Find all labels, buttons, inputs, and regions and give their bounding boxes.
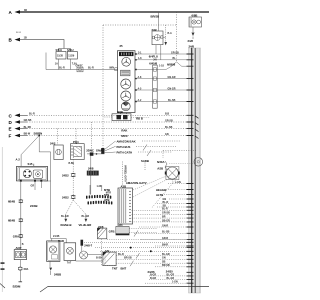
svg-text:7A7: 7A7 <box>67 261 72 264</box>
wire fuse feed left hook <box>45 53 47 70</box>
wire dashed drop right <box>176 12 178 62</box>
wire fan 3 <box>105 151 116 154</box>
right rows bottom <box>107 210 188 266</box>
gauge fuel <box>121 102 130 111</box>
svg-text:B-SB: B-SB <box>96 256 102 259</box>
svg-text:24/8-7: 24/8-7 <box>84 244 92 248</box>
svg-text:GN/3C: GN/3C <box>76 64 84 67</box>
ignition switch box <box>17 166 48 181</box>
svg-text:GMA: GMA <box>96 148 103 152</box>
svg-text:HEAGB: HEAGB <box>156 188 166 192</box>
svg-text:BB-W: BB-W <box>24 133 31 136</box>
svg-text:BNT: BNT <box>121 267 127 271</box>
svg-text:KNAB-B: KNAB-B <box>61 223 72 227</box>
svg-text:PATH BUS: PATH BUS <box>117 145 131 149</box>
svg-text:BR/SB: BR/SB <box>151 14 160 18</box>
connector D10A <box>19 267 23 271</box>
svg-text:GFB: GFB <box>109 229 115 233</box>
svg-text:B: B <box>22 243 24 246</box>
connector arrow down <box>192 33 195 37</box>
cluster pins <box>135 54 137 102</box>
svg-text:AMAZON BAK: AMAZON BAK <box>117 140 136 144</box>
wire vertical dashed mid <box>122 162 124 187</box>
slash marks <box>143 145 151 157</box>
comb connector row1 <box>86 195 111 199</box>
wire rows bottom right <box>145 276 188 283</box>
wire dotted long row 1 <box>84 241 188 243</box>
svg-text:GN: GN <box>162 257 166 260</box>
svg-text:24/8: 24/8 <box>188 39 194 43</box>
svg-text:24/3B: 24/3B <box>30 204 37 208</box>
svg-text:B.Bk: B.Bk <box>69 162 75 165</box>
svg-text:GN: GN <box>165 133 169 136</box>
comb stubs <box>90 185 102 195</box>
svg-text:BR: BR <box>162 216 166 219</box>
wire A <box>19 11 209 13</box>
gauge speedometer <box>122 57 131 66</box>
svg-text:GR-SB: GR-SB <box>171 51 179 54</box>
fuse 11/28 <box>56 52 66 60</box>
wire D drop <box>91 122 93 152</box>
wire row3 with peak <box>135 62 188 70</box>
svg-text:BR-SB: BR-SB <box>162 264 170 267</box>
svg-text:GN-R: GN-R <box>162 224 168 227</box>
gauge temperature <box>121 91 131 101</box>
gauge voltmeter box <box>121 70 131 76</box>
wire D <box>19 121 27 123</box>
svg-text:6/30A: 6/30A <box>157 160 164 164</box>
svg-text:BL-GR: BL-GR <box>61 215 69 218</box>
wire relay to A <box>158 12 160 31</box>
svg-text:BL-GR: BL-GR <box>167 273 175 276</box>
svg-text:A 2: A 2 <box>16 157 21 161</box>
instrument cluster box <box>118 51 136 113</box>
wire F diagonal to ignition <box>21 136 39 167</box>
svg-text:D8A: D8A <box>24 268 29 271</box>
svg-text:11/29: 11/29 <box>68 54 75 57</box>
svg-text:1-08: 1-08 <box>97 185 102 188</box>
wire end right <box>85 214 87 218</box>
gauge tachometer <box>121 79 131 89</box>
wire row5 <box>135 89 188 91</box>
bottom bus line <box>48 285 209 287</box>
svg-text:24BB: 24BB <box>54 272 61 276</box>
wire fan 2 <box>105 146 116 151</box>
wire lamp diagonals <box>133 176 177 208</box>
fuse output wires <box>59 59 71 70</box>
warning lamp <box>166 167 179 180</box>
wire A arrow <box>15 10 21 14</box>
svg-text:BL-SB: BL-SB <box>24 126 32 129</box>
wire zone line <box>87 153 104 155</box>
svg-text:11/28: 11/28 <box>57 54 64 57</box>
svg-text:RB B: RB B <box>136 116 143 120</box>
wire left column <box>20 182 22 250</box>
svg-text:B.B: B.B <box>165 113 169 116</box>
svg-text:24.0B: 24.0B <box>53 235 60 238</box>
wire dashed top feed <box>103 24 177 26</box>
wire dotted long row 3 <box>100 250 188 252</box>
wire B <box>19 40 71 52</box>
svg-text:BL-SB: BL-SB <box>162 231 170 234</box>
left margin fold line <box>1 147 3 292</box>
svg-text:BL: BL <box>173 57 177 60</box>
wire dotted L <box>102 239 116 266</box>
wire row2 <box>135 59 188 61</box>
svg-text:GN-GR: GN-GR <box>168 76 176 79</box>
svg-text:PATH GATH: PATH GATH <box>117 151 133 155</box>
svg-text:6B4B: 6B4B <box>8 200 15 204</box>
bulb symbol right <box>81 240 84 246</box>
svg-text:B-GR: B-GR <box>150 277 156 280</box>
svg-text:6B4B: 6B4B <box>8 219 15 223</box>
svg-text:24/8: 24/8 <box>88 167 94 171</box>
wire lamp bottom <box>76 254 103 261</box>
svg-text:F: F <box>9 133 12 138</box>
svg-text:SB-GR: SB-GR <box>162 219 170 222</box>
svg-text:S15: S15 <box>28 162 33 166</box>
svg-text:30 51: 30 51 <box>16 32 22 34</box>
svg-text:A-8: A-8 <box>138 76 143 79</box>
wire relay stubs down <box>156 45 161 60</box>
wire rows from L2 <box>116 256 188 264</box>
svg-text:3D: 3D <box>24 9 27 12</box>
svg-text:IWN: IWN <box>109 67 114 70</box>
svg-text:1A: 1A <box>55 63 58 66</box>
svg-text:BR-SB: BR-SB <box>124 257 132 260</box>
fuse 11/29 <box>67 52 77 60</box>
connector box A3B <box>118 188 133 224</box>
ignition contact block <box>33 170 43 178</box>
9/2B stubs <box>121 113 127 114</box>
wire row4 <box>135 78 188 80</box>
svg-text:B-A: B-A <box>168 32 173 35</box>
pin 30 feed <box>115 68 118 71</box>
svg-text:BL-R: BL-R <box>162 208 168 211</box>
svg-text:GR-SB: GR-SB <box>165 119 173 122</box>
svg-text:x-GN: x-GN <box>175 181 181 184</box>
instrument 9/2B box <box>112 114 131 121</box>
svg-text:BL-GR: BL-GR <box>162 253 170 256</box>
ignition rotor <box>23 170 31 178</box>
wire dashed drop left <box>102 25 104 149</box>
wire split diagonals <box>66 200 86 214</box>
wire B arrow <box>15 38 21 42</box>
svg-text:GR-SB: GR-SB <box>162 212 170 215</box>
svg-text:MCC: MCC <box>121 134 127 138</box>
svg-text:6/8B/8: 6/8B/8 <box>167 62 176 66</box>
wire feed lamps <box>51 239 67 243</box>
svg-text:BL-GR: BL-GR <box>167 277 175 280</box>
svg-text:BL-R: BL-R <box>88 67 94 70</box>
ignition pins <box>20 180 22 182</box>
wire relay right <box>163 36 166 38</box>
svg-text:TTS: TTS <box>104 193 109 197</box>
svg-text:GR-R: GR-R <box>162 237 168 240</box>
svg-text:BN-R: BN-R <box>162 243 168 246</box>
svg-text:S/BRN: S/BRN <box>34 131 43 135</box>
svg-text:VILJE-BR: VILJE-BR <box>79 223 92 227</box>
svg-text:BL-GR: BL-GR <box>82 215 90 218</box>
wire fan 1 <box>105 141 116 150</box>
wire E drop to heater <box>75 129 77 144</box>
svg-text:3DNC: 3DNC <box>86 148 94 152</box>
svg-text:E: E <box>9 127 12 132</box>
svg-text:A-2: A-2 <box>138 99 143 102</box>
ignition stubs <box>34 182 36 190</box>
svg-text:AMAZON-GATV: AMAZON-GATV <box>126 181 147 185</box>
odometer window <box>119 52 134 56</box>
comb connector row2 <box>88 201 113 205</box>
svg-text:ASB: ASB <box>157 167 163 171</box>
harness band <box>189 48 201 293</box>
wire end left <box>65 214 67 218</box>
wire K vertical <box>90 156 92 195</box>
svg-text:ATB: ATB <box>104 198 110 202</box>
svg-text:SB: SB <box>162 261 166 264</box>
wire F <box>19 135 27 137</box>
lamp pair box <box>189 17 202 27</box>
svg-text:BL-SB: BL-SB <box>168 99 176 102</box>
svg-text:GRA: GRA <box>13 234 19 238</box>
wire C <box>19 114 27 116</box>
svg-text:MTB: MTB <box>104 188 110 192</box>
svg-text:1-18: 1-18 <box>159 65 164 68</box>
svg-text:24D2: 24D2 <box>62 173 69 177</box>
svg-text:GR-SB: GR-SB <box>24 119 32 122</box>
svg-text:SADB: SADB <box>141 159 149 163</box>
svg-text:25: 25 <box>120 44 124 48</box>
switch A3P box <box>14 250 26 260</box>
svg-text:BL-SB: BL-SB <box>165 126 173 129</box>
wire lamp down <box>192 27 194 32</box>
svg-text:GR: GR <box>31 185 35 188</box>
band ticks <box>187 54 199 283</box>
svg-text:15I: 15I <box>24 37 28 40</box>
svg-text:BL-R: BL-R <box>29 113 35 116</box>
wire row6 <box>135 101 188 103</box>
svg-text:BL-R: BL-R <box>59 67 65 70</box>
svg-text:1-GN: 1-GN <box>172 281 178 284</box>
svg-text:B-GR: B-GR <box>150 273 156 276</box>
right rows mid <box>168 183 188 185</box>
svg-text:GN-GR: GN-GR <box>168 87 176 90</box>
wire 30 feed to cluster <box>46 69 118 71</box>
wire rows from strip <box>129 229 157 233</box>
svg-text:ALTB: ALTB <box>156 193 163 197</box>
svg-text:TNT: TNT <box>112 267 118 271</box>
wire dotted long row 2 <box>95 247 188 249</box>
wire to E/DIM <box>19 270 21 281</box>
svg-text:RAK: RAK <box>121 128 127 132</box>
clock component <box>194 158 203 167</box>
svg-text:A-5: A-5 <box>138 87 143 90</box>
lamp box 1 <box>47 241 60 262</box>
wire fan node <box>101 148 104 154</box>
svg-text:E/DIM: E/DIM <box>13 285 21 289</box>
wire below A3P <box>19 260 21 267</box>
wire lamp1 down <box>49 261 51 267</box>
wire row1 <box>135 53 188 55</box>
svg-text:24D2: 24D2 <box>62 195 69 199</box>
svg-text:VARSEL-GATV: VARSEL-GATV <box>124 165 127 182</box>
wire E drop to motor <box>56 129 58 145</box>
svg-text:BL-R: BL-R <box>118 253 124 256</box>
lamp box 2 <box>64 243 76 261</box>
wire E <box>19 128 27 130</box>
svg-text:24/8: 24/8 <box>189 44 195 48</box>
